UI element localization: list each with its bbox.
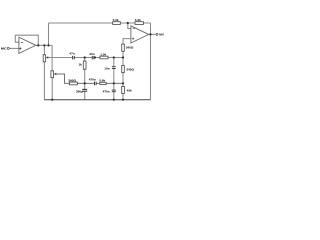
node 470n top [113,82,115,84]
U1 plus pin mark [19,47,21,49]
resistor R 3,3k right [135,22,143,25]
wire drop from output to pot P2 [51,45,53,70]
resistor R 45k vertical [122,86,125,93]
wire pot P2 wiper line [56,74,69,83]
svg-text:45k: 45k [127,88,132,92]
capacitor C 470n shunt [112,90,116,92]
node riser [47,44,49,46]
capacitor C 40n [92,56,94,59]
node 470n ground [113,99,115,101]
resistor R 390ohm [69,82,77,85]
potentiometer P1 [43,55,45,62]
wire pot P1 bottom leg [43,62,45,100]
wire op1 output line [36,44,52,46]
wire 1k resistor legs [84,58,86,62]
resistor R 3,3k left [113,22,121,25]
svg-text:340Ω: 340Ω [126,68,134,72]
svg-text:47n: 47n [69,52,74,56]
node op2 output [149,33,151,35]
junction dots [37,22,151,101]
svg-text:MIC: MIC [1,47,7,51]
svg-text:1k: 1k [78,62,82,66]
wire 470n shunt cap legs [113,83,115,89]
op-amp U1 [19,37,36,53]
node lower chain end [122,82,124,84]
resistor R 340ohm lower vertical [122,65,125,72]
node 45k ground [122,99,124,101]
terminal MV output [156,33,158,35]
wire op2 plus-input leg [123,39,131,45]
wire riser from op1 output to top rail [48,23,50,45]
svg-text:390Ω: 390Ω [68,78,76,82]
svg-text:3,3k: 3,3k [113,18,119,22]
wire top rail [49,22,151,24]
wire MIC input [10,47,19,49]
resistor R 1,5k [100,56,108,59]
svg-text:390µ: 390µ [76,89,83,93]
node cap 40n right [94,56,96,58]
op-amp U2 [131,26,149,43]
wire pot P2 bottom to ground rail [51,78,53,100]
wire 390u cap legs [84,83,86,89]
wire op1 feedback loop [15,35,38,45]
svg-text:1,5k: 1,5k [100,52,106,56]
wire ground rail [44,99,150,101]
wire mid rail segments [75,57,92,59]
resistor R 1k vertical [83,61,86,69]
wire op2 minus riser [128,23,131,29]
node 390u top [84,82,86,84]
wire 340ohm chain [122,51,124,65]
resistor R 340ohm upper vertical [122,44,125,51]
capacitor C 470n series [95,82,97,86]
wire 10n cap legs [113,58,115,67]
svg-text:10n: 10n [104,67,109,71]
potentiometer P2 [51,71,54,78]
wire pot P1 wiper line [48,57,72,59]
node pot2 ground [51,99,53,101]
capacitor C 10n [112,67,116,69]
node op1 feedback/output [37,44,39,46]
svg-text:340Ω: 340Ω [126,46,134,50]
wire op2 output [149,33,156,35]
svg-text:5,6k: 5,6k [99,78,105,82]
U2 minus pin mark [133,27,135,29]
terminal MIC [7,47,9,49]
capacitor C 390u electrolytic [82,89,87,91]
node 1k top [84,56,86,58]
svg-text:3,3k: 3,3k [135,18,141,22]
node mid rail end [122,56,124,58]
node pot1 top [43,44,45,46]
svg-text:470n: 470n [89,78,96,82]
wire lower chain segments [77,82,94,84]
capacitor C 47n [73,56,75,60]
U2 plus pin mark [132,38,134,40]
node 10n top [113,56,115,58]
node top rail junction [127,22,129,24]
wire right vertical [150,23,152,100]
U1 minus pin mark [21,41,23,43]
wire pot P1 top leg [43,45,45,54]
resistor R 5,6k [100,82,106,84]
svg-text:40n: 40n [89,52,94,56]
svg-text:470n: 470n [103,89,110,93]
